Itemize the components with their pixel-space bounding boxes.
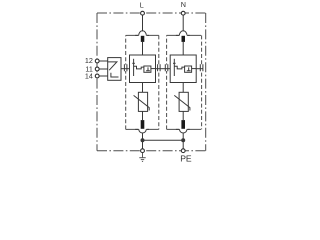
svg-text:PE: PE [180,154,192,164]
svg-text:14: 14 [85,71,93,80]
svg-text:N: N [181,0,186,9]
svg-text:L: L [140,0,144,9]
